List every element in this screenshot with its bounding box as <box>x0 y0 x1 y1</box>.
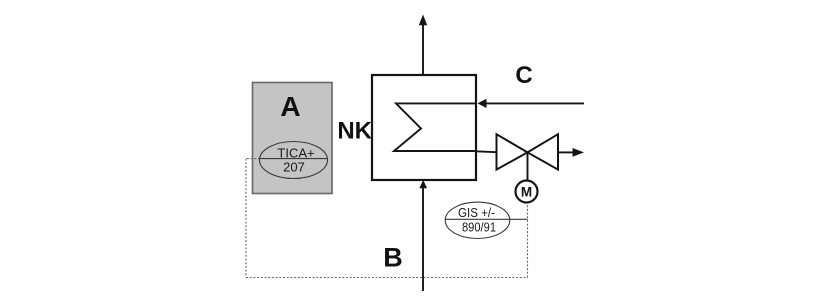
dashed signal wire: right vertical up to M actuator <box>527 204 529 278</box>
instrument bubble GIS +/- 890/91 <box>445 202 510 238</box>
dashed signal wire: TICA+207 to left <box>246 158 260 160</box>
wire: bubble chord line to actuator <box>446 218 528 220</box>
instrument bubble TICA+ 207 <box>260 142 328 179</box>
control valve body (left triangle) <box>497 134 528 169</box>
arrowhead valve outlet <box>573 148 585 157</box>
wire: inlet C <box>486 102 584 104</box>
control valve body (right triangle) <box>528 134 559 169</box>
controller block A (gray box) <box>253 83 333 194</box>
dashed signal wire: left vertical <box>245 159 247 278</box>
svg-text:GIS +/-: GIS +/- <box>458 205 495 220</box>
svg-text:A: A <box>280 91 300 122</box>
motor actuator M <box>516 181 538 203</box>
arrowhead inlet C <box>478 99 487 108</box>
dashed signal wire: bottom horizontal <box>246 277 528 279</box>
svg-text:890/91: 890/91 <box>462 220 496 235</box>
wire: valve outlet <box>558 151 574 153</box>
svg-text:NK: NK <box>337 118 372 145</box>
arrowhead inlet B <box>419 180 427 188</box>
svg-text:C: C <box>515 62 532 89</box>
svg-text:B: B <box>383 243 403 273</box>
heat exchanger coil (zigzag) <box>394 103 476 151</box>
svg-text:M: M <box>521 185 532 200</box>
svg-text:TICA+: TICA+ <box>277 146 314 161</box>
wire: valve stem to motor <box>527 152 529 180</box>
wire: inlet B <box>422 188 424 291</box>
heat exchanger vessel NK <box>372 75 476 180</box>
arrowhead top outlet <box>419 15 427 26</box>
wire: heat exchanger to valve <box>476 150 497 153</box>
svg-text:207: 207 <box>283 160 305 175</box>
instrument bubble chord line <box>260 158 328 160</box>
wire: top outlet <box>422 25 424 75</box>
